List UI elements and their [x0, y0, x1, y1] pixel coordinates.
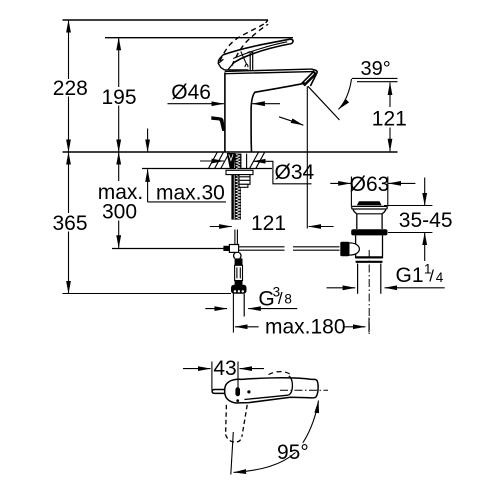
svg-text:Ø63: Ø63 [350, 173, 390, 196]
slot piece [235, 265, 243, 280]
dim Ø34 right arrow with label box [253, 161, 312, 184]
dim 43 right arrow [240, 368, 265, 370]
handle lever top edge [223, 39, 289, 55]
rod clamp screw (dark) [223, 246, 229, 251]
dim 228 vertical [68, 20, 70, 152]
dim G1 1/4 right arrow with underline [385, 287, 445, 289]
dim 121 horizontal left arrow [210, 226, 232, 228]
39 degree arc with arrowhead [338, 79, 351, 110]
drain coupling bands [356, 256, 383, 258]
svg-text:max.180: max.180 [265, 316, 346, 339]
dim Ø46 leader arrow [168, 103, 224, 105]
lower hose thread [235, 281, 243, 286]
drain axis centerline [368, 250, 370, 334]
water stream line [308, 86, 340, 120]
rod port knob (dark) [340, 242, 349, 256]
mounting nut [239, 175, 250, 188]
svg-text:max.30: max.30 [156, 182, 225, 205]
cartridge neck right edge double line [250, 52, 253, 71]
dim 121 horizontal right arrow [309, 226, 334, 228]
dim max180 left tick (hose wall extension) [232, 294, 234, 333]
dashed handle raised position line B [232, 24, 268, 66]
dim 35-45 upper reference line [384, 205, 432, 207]
drain flange rim left end [352, 206, 388, 209]
spout tip [310, 69, 317, 86]
wall connection stub [212, 390, 225, 394]
spout top wedge [225, 69, 314, 74]
dim 35-45 upper pointer [424, 178, 426, 206]
95 degree arc lower part [234, 453, 296, 473]
svg-text:35-45: 35-45 [399, 209, 453, 232]
dim Ø63 extension lines [351, 177, 387, 207]
dim 35-45 lower pointer [424, 233, 426, 262]
handle base left facets [218, 55, 234, 70]
dim G3/8 left arrow [205, 308, 227, 310]
dashed handle tip arc [266, 21, 268, 23]
95 degree reference line [231, 432, 234, 475]
95 degree arc upper part [303, 401, 319, 443]
drain flange taper sides [353, 209, 386, 214]
pop-up rod right double line [293, 247, 340, 250]
dim 43 left arrow [183, 368, 211, 370]
reference line bottom of 365 (hose end level) [63, 293, 232, 295]
dim max180 right arrow [343, 326, 365, 328]
svg-text:121: 121 [251, 212, 286, 235]
svg-text:121: 121 [372, 108, 407, 131]
hook below clamp [234, 253, 241, 259]
faucet body left edge [224, 73, 226, 153]
svg-text:8: 8 [284, 292, 292, 307]
lever pivot bar (dark) [235, 387, 240, 396]
rod clamp body [229, 245, 238, 253]
rod port ball housing [349, 243, 360, 255]
svg-text:95°: 95° [277, 441, 309, 464]
threaded shank (dark) [235, 154, 241, 169]
dim max30 lower pointer and label underline [147, 169, 149, 202]
dim 35-45 lower reference line [388, 232, 432, 234]
extension line 195 reference [105, 37, 293, 39]
hose tube right wall [243, 294, 245, 317]
connector ball dots [234, 290, 236, 292]
drain seal ring (dark) [351, 229, 387, 235]
svg-text:300: 300 [102, 201, 137, 224]
pop-up rod left single line [112, 248, 223, 250]
countertop bottom line [142, 168, 272, 170]
drain plug lip (dark) [357, 201, 382, 205]
spout outlet inner highlight [305, 73, 314, 82]
drain body upper walls [357, 214, 382, 229]
drain tailpipe walls [358, 264, 381, 294]
lever bottom inner line [244, 395, 288, 399]
dim max180 right tick [368, 318, 370, 333]
svg-text:Ø46: Ø46 [171, 81, 211, 104]
svg-text:43: 43 [213, 357, 236, 380]
dim max300 vertical [118, 152, 120, 248]
shank right sleeve lines [241, 154, 247, 169]
cartridge neck rounded corner [247, 52, 252, 54]
svg-text:Ø34: Ø34 [275, 161, 315, 184]
dim 121 right vertical [389, 83, 391, 152]
extension line top (228 reference) [63, 19, 269, 21]
dim 365 vertical [68, 152, 70, 294]
lever tip cap [288, 376, 292, 395]
dim Ø63 left arrow [330, 182, 351, 184]
hatch left of shank [209, 152, 230, 168]
spout height reference line [357, 81, 398, 83]
dim 195 vertical [118, 38, 120, 152]
spout outlet extension line down to 121 dim [306, 86, 308, 228]
G3/8 connector ball (dark) [231, 285, 247, 294]
handle base internal facet lines [241, 52, 248, 68]
dim 43 left tick [211, 362, 213, 391]
dashed alternate lever outline [269, 372, 292, 376]
plan centerline [280, 389, 328, 391]
lower shank texture [236, 176, 240, 220]
svg-text:365: 365 [52, 212, 87, 235]
drain flange collar bottom line [357, 213, 382, 215]
lower shank dark band [231, 175, 241, 220]
dim Ø46 opposite arrow [252, 103, 280, 105]
lower shank lift rod separation [233, 175, 235, 219]
pivot dot bottom [236, 399, 239, 402]
handle base bottom edge [225, 69, 249, 71]
handle lever bottom edge [234, 44, 289, 62]
svg-text:G1: G1 [396, 264, 424, 287]
lift rod guide funnel (dark) [227, 154, 235, 169]
dim G1 1/4 left arrow [327, 287, 356, 289]
mounting washer [226, 170, 253, 174]
handle lever inner highlight [233, 42, 287, 59]
dashed handle raised position line A [220, 23, 266, 61]
dim max180 left arrow [235, 326, 259, 328]
pivot dot right [247, 390, 250, 393]
shank thread texture [236, 155, 240, 169]
dim max30 upper pointer [147, 129, 149, 153]
faucet body right side / spout underside curve [251, 84, 302, 152]
dashed rotated lever bottom arc [226, 434, 242, 442]
dim Ø63 right arrow [388, 182, 415, 184]
hatch right of shank [250, 152, 265, 168]
svg-text:195: 195 [101, 86, 136, 109]
handle base left zigzag [218, 59, 224, 70]
svg-text:39°: 39° [361, 58, 391, 80]
pop-up rod knob on body (dark) [212, 117, 225, 131]
svg-text:228: 228 [53, 77, 88, 100]
pop-up rod middle double line [239, 247, 285, 250]
lift rod thin section [235, 230, 238, 245]
dim Ø34 left arrow [200, 160, 224, 162]
countertop top line [63, 151, 398, 153]
handle lever tip [289, 39, 293, 44]
flow direction curved arrow [279, 117, 303, 125]
drain body lower walls [356, 235, 383, 258]
39 degree label underline [352, 77, 398, 79]
dashed rotated lever right edge [242, 405, 247, 437]
spout outlet (dark) [301, 70, 317, 86]
upper hose thread [235, 258, 243, 265]
svg-text:4: 4 [436, 270, 444, 285]
drain flange rim [352, 206, 386, 209]
plan view outer outline (base + spout) [225, 378, 318, 403]
dim G3/8 right arrow with underline [248, 308, 297, 310]
svg-text:/: / [429, 267, 434, 286]
dim 43 right tick [237, 362, 239, 388]
dashed rotated lever left edge [225, 405, 228, 435]
svg-text:/: / [278, 289, 283, 308]
